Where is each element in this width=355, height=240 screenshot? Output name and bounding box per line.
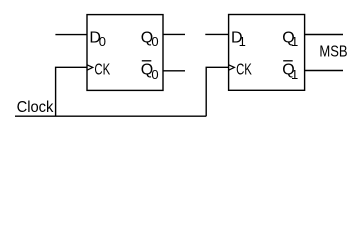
label Q1 (pin Q of U2) [282,29,298,49]
wire D0 input [55,34,87,36]
wire D1 input [205,33,228,35]
label D1 (pin D of U2) [231,29,246,49]
svg-text:1: 1 [239,34,246,49]
label Q0-bar (pin Qbar of U1) [141,61,159,82]
clock edge triangle U2 [229,65,235,70]
svg-text:1: 1 [291,67,298,82]
flip-flop U1 box [87,15,163,91]
wire Q0-bar output [163,70,185,72]
wire clock branch to U2 CK [206,67,228,116]
flip-flop U2 box [229,15,305,91]
svg-text:Clock: Clock [17,99,55,116]
svg-text:CK: CK [236,62,252,79]
label D0 (pin D of U1) [89,29,106,49]
svg-text:0: 0 [151,67,158,82]
svg-text:CK: CK [94,62,110,79]
wire Q0 output [163,33,185,35]
wire Q1-bar output [305,70,343,72]
label Q0 (pin Q of U1) [141,29,159,49]
wire clock branch to U1 CK [56,67,87,116]
svg-text:0: 0 [99,34,106,49]
clock edge triangle U1 [87,65,93,70]
svg-text:0: 0 [151,34,158,49]
label Q1-bar (pin Qbar of U2) [282,61,298,82]
svg-text:1: 1 [291,34,298,49]
wire clock bus [15,115,206,117]
svg-text:MSB: MSB [319,44,347,61]
wire Q1 output [305,34,343,36]
